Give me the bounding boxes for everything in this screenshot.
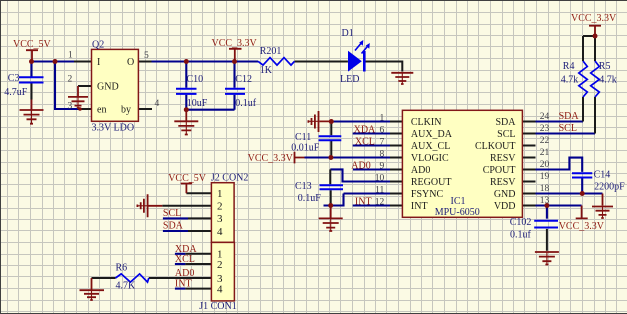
svg-text:23: 23 — [540, 124, 550, 134]
svg-text:RESV: RESV — [490, 153, 516, 164]
svg-text:1: 1 — [217, 188, 223, 200]
svg-text:3.3V LDO: 3.3V LDO — [92, 123, 135, 134]
svg-text:IC1: IC1 — [451, 196, 466, 207]
svg-text:2200pF: 2200pF — [594, 181, 625, 192]
svg-text:C102: C102 — [510, 217, 532, 228]
svg-text:1: 1 — [68, 51, 73, 61]
svg-text:J1 CON1: J1 CON1 — [199, 301, 237, 312]
svg-text:10uF: 10uF — [187, 98, 208, 109]
svg-text:LED: LED — [340, 74, 359, 85]
svg-text:O: O — [127, 57, 134, 68]
svg-text:J2 CON2: J2 CON2 — [211, 172, 249, 183]
svg-text:R4: R4 — [563, 61, 575, 72]
svg-text:AD0: AD0 — [351, 161, 370, 172]
svg-text:24: 24 — [540, 112, 550, 122]
svg-text:XCL: XCL — [355, 137, 375, 148]
svg-text:VCC_3.3V: VCC_3.3V — [212, 38, 258, 49]
svg-text:SCL: SCL — [559, 123, 577, 134]
svg-text:4.7K: 4.7K — [116, 281, 137, 292]
svg-text:XCL: XCL — [175, 254, 195, 265]
svg-text:4.7uF: 4.7uF — [4, 87, 28, 98]
svg-text:10: 10 — [375, 174, 385, 184]
svg-text:4.7k: 4.7k — [599, 74, 617, 85]
svg-text:2: 2 — [68, 75, 73, 85]
svg-text:20: 20 — [540, 160, 550, 170]
svg-text:CLKOUT: CLKOUT — [475, 141, 516, 152]
svg-text:R5: R5 — [599, 61, 611, 72]
svg-text:VLOGIC: VLOGIC — [411, 153, 449, 164]
svg-text:INT: INT — [175, 279, 192, 290]
svg-text:VCC_3.3V: VCC_3.3V — [571, 13, 617, 24]
svg-text:4: 4 — [217, 283, 223, 295]
svg-text:9: 9 — [380, 162, 385, 172]
svg-text:AD0: AD0 — [175, 268, 194, 279]
svg-text:C13: C13 — [295, 181, 312, 192]
svg-text:AD0: AD0 — [411, 165, 430, 176]
svg-text:AUX_CL: AUX_CL — [411, 141, 450, 152]
svg-text:VCC_3.3V: VCC_3.3V — [248, 153, 294, 164]
svg-text:R6: R6 — [116, 262, 128, 273]
svg-text:4: 4 — [217, 226, 223, 238]
svg-text:D1: D1 — [342, 28, 354, 39]
svg-text:C12: C12 — [235, 74, 252, 85]
svg-text:18: 18 — [540, 184, 550, 194]
svg-text:12: 12 — [375, 198, 385, 208]
svg-text:XDA: XDA — [354, 125, 376, 136]
svg-text:4: 4 — [155, 99, 160, 109]
svg-text:INT: INT — [411, 201, 428, 212]
svg-text:VDD: VDD — [494, 201, 516, 212]
svg-text:C11: C11 — [295, 132, 311, 143]
svg-text:3: 3 — [217, 213, 223, 225]
svg-text:R201: R201 — [260, 46, 282, 57]
svg-text:0.1uf: 0.1uf — [235, 98, 256, 109]
svg-text:0.1uf: 0.1uf — [510, 230, 532, 241]
svg-text:5: 5 — [144, 51, 149, 61]
svg-text:SDA: SDA — [559, 111, 580, 122]
svg-text:RESV: RESV — [490, 177, 516, 188]
svg-text:VCC_5V: VCC_5V — [13, 39, 52, 50]
svg-text:6: 6 — [380, 126, 385, 136]
svg-text:FSYNC: FSYNC — [411, 189, 444, 200]
svg-text:3: 3 — [68, 102, 73, 112]
svg-text:2: 2 — [217, 259, 223, 271]
svg-text:0.01uF: 0.01uF — [291, 143, 320, 154]
svg-text:SCL: SCL — [497, 129, 515, 140]
svg-text:REGOUT: REGOUT — [411, 177, 452, 188]
svg-text:22: 22 — [540, 136, 550, 146]
svg-text:1K: 1K — [260, 65, 273, 76]
svg-text:C10: C10 — [187, 74, 204, 85]
svg-text:7: 7 — [380, 138, 385, 148]
svg-text:AUX_DA: AUX_DA — [411, 129, 453, 140]
svg-text:GND: GND — [494, 189, 516, 200]
svg-text:en: en — [97, 105, 106, 116]
svg-text:4.7k: 4.7k — [561, 74, 579, 85]
svg-text:SDA: SDA — [163, 221, 184, 232]
svg-text:MPU-6050: MPU-6050 — [435, 207, 480, 218]
svg-text:GND: GND — [97, 82, 119, 93]
svg-text:C3: C3 — [8, 73, 20, 84]
svg-text:2: 2 — [217, 201, 223, 213]
svg-text:19: 19 — [540, 172, 550, 182]
svg-text:21: 21 — [540, 148, 550, 158]
svg-text:by: by — [121, 105, 131, 116]
svg-text:C14: C14 — [594, 169, 611, 180]
svg-text:CPOUT: CPOUT — [483, 165, 516, 176]
svg-text:1: 1 — [380, 114, 385, 124]
svg-text:0.1uF: 0.1uF — [298, 193, 322, 204]
svg-text:8: 8 — [380, 150, 385, 160]
svg-text:Q2: Q2 — [92, 40, 104, 51]
svg-text:VCC_5V: VCC_5V — [168, 173, 207, 184]
svg-text:CLKIN: CLKIN — [411, 117, 442, 128]
svg-text:INT: INT — [355, 197, 372, 208]
svg-text:VCC_3.3V: VCC_3.3V — [559, 221, 605, 232]
svg-text:13: 13 — [540, 196, 550, 206]
svg-text:I: I — [97, 57, 100, 68]
svg-text:SDA: SDA — [495, 117, 516, 128]
svg-text:11: 11 — [375, 186, 384, 196]
svg-text:SCL: SCL — [163, 208, 181, 219]
